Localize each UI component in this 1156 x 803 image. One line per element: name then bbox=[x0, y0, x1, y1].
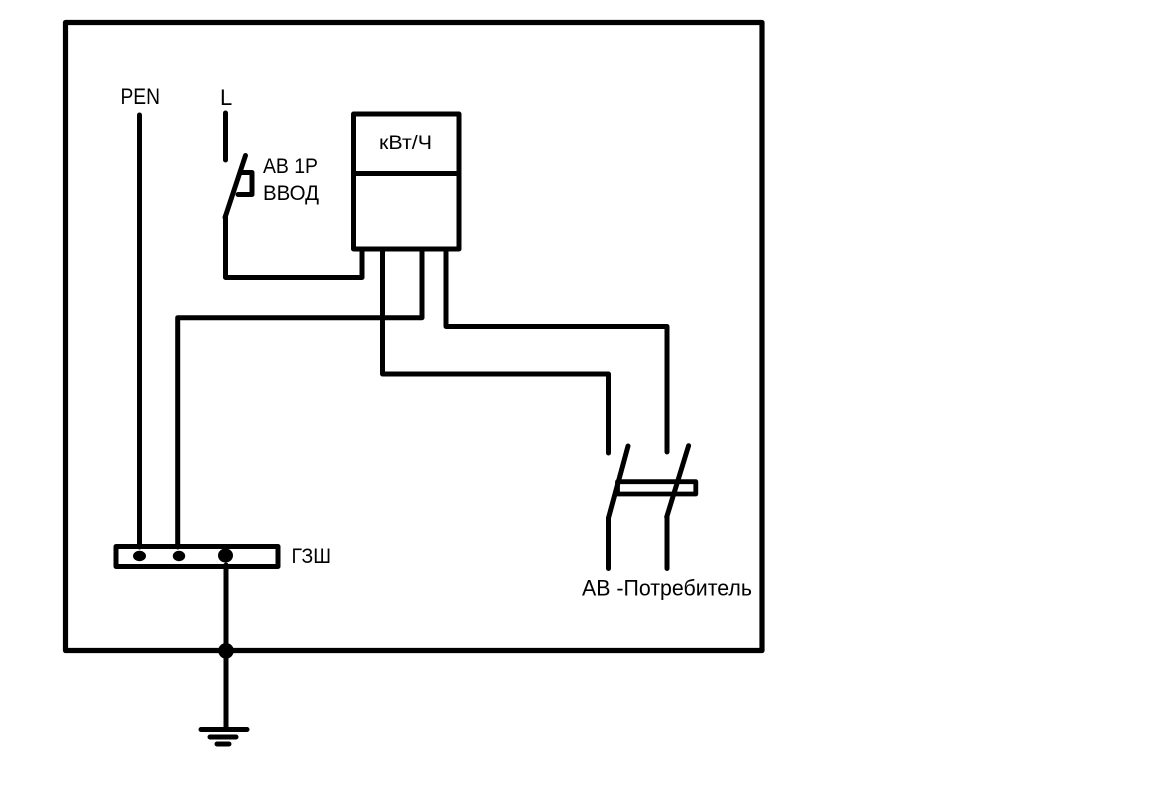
breaker Q1 latch hook bbox=[238, 173, 252, 195]
enclosure outline bbox=[66, 23, 763, 651]
svg-text:L: L bbox=[220, 85, 232, 110]
wire meter terminal 3 to ГЗШ bus bbox=[178, 251, 422, 547]
junction dot where earth wire crosses enclosure bbox=[218, 643, 234, 659]
svg-text:АВ -Потребитель: АВ -Потребитель bbox=[582, 576, 752, 601]
junction dot on ГЗШ bus terminal 2 bbox=[173, 551, 185, 561]
ground symbol bar 1 bbox=[201, 727, 247, 732]
svg-text:PEN: PEN bbox=[121, 84, 161, 109]
breaker Q2 left pole contact bbox=[609, 446, 629, 518]
junction dot on ГЗШ bus terminal 3 (earth) bbox=[218, 549, 233, 563]
wire breaker output to meter terminal 1 bbox=[226, 216, 363, 278]
svg-text:АВ 1Р: АВ 1Р bbox=[263, 155, 318, 178]
svg-text:кВт/Ч: кВт/Ч bbox=[379, 132, 432, 154]
breaker Q1 contact (АВ 1Р ВВОД) bbox=[225, 156, 246, 218]
svg-text:ГЗШ: ГЗШ bbox=[292, 545, 332, 568]
bus bar ГЗШ body bbox=[116, 547, 278, 567]
wire meter terminal 2 to consumer breaker left pole bbox=[383, 251, 609, 453]
meter U1 divider line bbox=[352, 171, 462, 176]
breaker Q2 trip bar bbox=[618, 482, 696, 494]
wire PEN conductor bbox=[137, 115, 142, 547]
ground symbol bar 2 bbox=[210, 735, 236, 740]
meter U1 body (кВт/Ч) bbox=[354, 114, 460, 249]
svg-text:ВВОД: ВВОД bbox=[263, 182, 319, 205]
ground symbol bar 3 bbox=[217, 742, 229, 747]
wire L conductor bbox=[223, 113, 228, 160]
wire ГЗШ to earth electrode bbox=[224, 565, 229, 729]
wire meter terminal 4 to consumer breaker right pole bbox=[446, 251, 667, 452]
junction dot on ГЗШ bus terminal 1 (PEN) bbox=[133, 551, 146, 561]
wire breaker Q2 left pole bottom lead bbox=[606, 518, 611, 569]
breaker Q2 right pole contact bbox=[667, 446, 689, 517]
wire breaker Q2 right pole bottom lead bbox=[665, 517, 670, 569]
